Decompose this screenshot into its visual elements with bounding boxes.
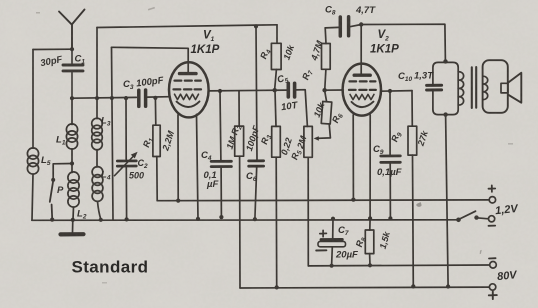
wire: V1 screen output line y91 [209,89,287,92]
node: L4 on minus rail [99,218,103,222]
wire: antenna node to L5 column [33,48,72,50]
speaker cone [508,73,521,103]
tube V1 filament zigzag [175,94,199,99]
node: antenna junction [70,47,74,51]
tube V2 envelope [343,64,381,116]
variable capacitor C2 500 [124,96,128,100]
resistor R8 1,5k [369,218,371,230]
resistor R7 4,7M [324,28,327,44]
wire: V1 right filament lead to -rail [197,114,199,218]
resistor R5 2M (pot) [297,90,308,127]
ground [72,220,74,232]
transformer primary winding [458,72,463,105]
node: L2 on minus rail [71,218,75,222]
wire: V2 right filament lead [369,115,371,218]
resistor R4 10k [276,25,278,44]
wire: inner top rail to V1 top cap [112,47,189,73]
tube V1 grid dashes row 1 [175,79,201,81]
wire: vertical x112 from inner rail down to minus rail [112,47,114,220]
capacitor C8 4,7T [325,25,361,28]
label + (80V) [489,291,497,299]
coil L2 [68,172,79,183]
node: C9 top [388,89,392,93]
capacitor C3 100pF [139,90,146,106]
wire: V2 left filament lead [352,115,354,200]
electrolytic C7 20uF [332,219,333,266]
capacitor C5 10T [288,83,294,97]
label - (below switch) [489,225,496,227]
transformer core [472,67,476,108]
label + (1,2V) [489,185,496,192]
wire: tap to switch P [53,164,72,179]
tube V2 filament zigzag [350,94,374,99]
wire: row1 +1,2V rail [157,199,489,202]
wire: top rail A (L3/R4 rail) [97,25,277,28]
label + (C7) [320,230,327,237]
resistor R2 1M [238,91,240,126]
capacitor C9 0,1uF [389,91,391,218]
label - (80V) [489,257,496,259]
coil L4 [92,167,103,178]
node: C1/L1/grid junction [70,96,74,100]
wire: bottom +80V rail [240,286,489,289]
switch in filament minus lead [456,218,461,223]
wire: vertical from rail A down to L3 column [96,28,98,99]
tube V2 grid dashes row 2 [349,89,376,91]
wire: row2 -1,2V rail [32,219,458,222]
tube V1 grid dashes row 2 [174,88,202,90]
node: V2 grid junction [322,88,326,92]
tube V1 bottom arc [177,101,200,107]
tube V1 anode plate [180,72,197,75]
node: R4/R3/C5 junction [273,88,277,92]
terminal -80V [490,262,497,269]
speaker coil (secondary) [483,76,488,99]
node: C4 top [218,89,222,93]
label - (C7) [316,249,326,251]
node: R3 on +80 rail [275,285,279,289]
speaker frame [483,60,508,113]
switch P [51,178,55,182]
coil L5 [32,50,34,149]
speaker throat [501,83,508,93]
wire: grid junction to V2 [325,89,344,91]
coil L1 [71,98,73,124]
wire: grid line y98 [72,97,169,99]
wire: rail B anode to transformer [361,24,445,61]
node: x112 on grid line [110,96,114,100]
resistor R3 0,22 [275,90,276,126]
tube V2 grid dashes row 1 [350,80,376,82]
wire: V2 anode top lead [360,25,362,74]
node: L1/L2 tap [70,161,74,165]
capacitor C4 0,1uF [220,91,221,217]
resistor R6 10k with wiper arrow [325,90,327,102]
node: x97 on grid line [95,96,99,100]
terminal +80V [489,284,495,290]
tube V2 bottom arc [352,102,374,107]
wire: V1 left filament lead to +rail [177,115,179,201]
resistor R1 2,2M [154,98,156,125]
node: C7 top on minus rail [331,217,335,221]
node: R1 top on grid line [153,96,157,100]
terminal +1,2V [489,197,495,203]
wire: V2 screen output [381,90,412,93]
capacitor C1 30pF [63,49,83,98]
node: transformer bottom [443,112,447,116]
node: R9 on +80 rail [411,284,415,288]
node: transformer top [443,59,447,63]
wire: transformer bottom to +80 rail [446,115,449,287]
capacitor C6 100pF [254,24,258,28]
capacitor C10 across primary [433,62,458,114]
antenna [59,10,85,50]
tube V1 envelope [169,62,209,117]
coil L3 [96,98,98,119]
resistor R9 27k [411,91,413,127]
wire: row -80V [308,264,490,267]
tube V2 anode plate [354,73,370,76]
